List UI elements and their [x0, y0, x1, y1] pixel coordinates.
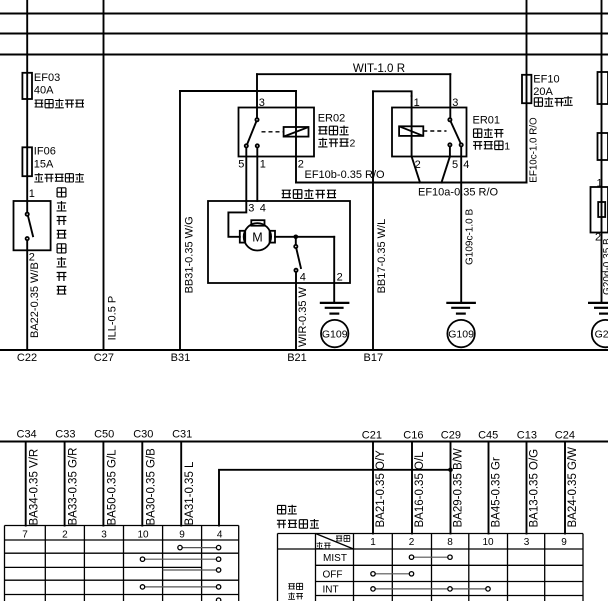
svg-text:40A: 40A — [34, 84, 54, 96]
wire ER02 pin3 riser — [256, 74, 258, 118]
wire BA50-0.35 G/L — [102, 442, 104, 526]
svg-text:3: 3 — [452, 97, 458, 109]
svg-text:C31: C31 — [172, 429, 192, 441]
park switch contacts — [295, 239, 297, 245]
svg-text:EF10c-1.0 R/O: EF10c-1.0 R/O — [529, 117, 540, 183]
svg-text:9: 9 — [179, 529, 185, 540]
wire BA21-0.35 O/Y — [372, 442, 374, 534]
wire EF03 feed (x=27) from top to ignition switch — [26, 0, 28, 212]
wire BA33-0.35 G/R — [64, 442, 66, 526]
label 雨刮组合开关 — [278, 505, 286, 513]
right table contact row OFF (1-2) — [373, 573, 412, 575]
wire WIT-1.0 R — [257, 73, 450, 75]
right edge circuit feed wire — [601, 0, 603, 302]
bus line 2 — [0, 33, 608, 35]
connector rail lower — [0, 441, 608, 443]
motor right wire to park switch — [275, 236, 334, 238]
ignition switch box 点火钥匙未拔开关 — [14, 201, 51, 250]
ER02 switch contacts — [255, 118, 258, 121]
right table contact row INT (1-8-10) — [373, 588, 488, 590]
svg-text:IF06: IF06 — [34, 145, 56, 157]
svg-text:9: 9 — [561, 537, 567, 548]
svg-text:2: 2 — [337, 271, 343, 283]
wire BA31-0.35 L — [180, 442, 182, 526]
right fuse 2 — [598, 133, 608, 160]
left table contact row 2 (10-4) — [143, 558, 219, 560]
svg-text:WIR-0.35 W: WIR-0.35 W — [297, 286, 309, 347]
left table contact row 4 partial (4) — [216, 598, 220, 601]
svg-text:5: 5 — [238, 158, 244, 170]
wire ILL-0.5 P (x=103.5) — [103, 0, 105, 350]
relay ER01 box — [392, 108, 467, 157]
svg-text:ER01: ER01 — [473, 115, 501, 127]
right table (wiper combination switch) outer and columns — [278, 534, 584, 601]
junction dot motor park switch — [294, 235, 299, 240]
ER01 coil line pin1-pin2 through box — [411, 96, 413, 157]
fuse IF06 — [22, 147, 32, 176]
svg-text:15A: 15A — [34, 158, 54, 170]
svg-text:C22: C22 — [17, 352, 37, 364]
wire ER02 pin5 to motor pin3 — [245, 148, 247, 201]
svg-text:1: 1 — [414, 97, 420, 109]
tap wire from BA29 to left table col 4 — [219, 470, 451, 526]
motor internal wire pin3 to left terminal — [228, 201, 246, 237]
svg-text:OFF: OFF — [323, 569, 343, 580]
relay ER02 box — [239, 108, 315, 157]
bus line 3 — [0, 54, 608, 56]
label 刮 fragment right fuse — [564, 96, 573, 105]
ground symbol for motor — [320, 302, 350, 304]
svg-text:BA29-0.35 B/W: BA29-0.35 B/W — [453, 448, 465, 527]
wire BA16-0.35 O/L — [411, 442, 413, 534]
svg-text:2: 2 — [409, 537, 415, 548]
label 仪表配电盒 — [35, 100, 44, 107]
wire BA45-0.35 Gr — [488, 442, 490, 534]
svg-text:8: 8 — [447, 537, 453, 548]
svg-text:B17: B17 — [364, 352, 384, 364]
svg-text:BA45-0.35 Gr: BA45-0.35 Gr — [491, 457, 503, 527]
label 多媒体系统 — [34, 173, 43, 182]
wire BA30-0.35 G/B — [141, 442, 143, 526]
svg-text:B21: B21 — [287, 352, 307, 364]
svg-text:BA50-0.35 G/L: BA50-0.35 G/L — [106, 449, 118, 526]
svg-text:G20: G20 — [595, 329, 608, 341]
svg-text:5: 5 — [452, 159, 458, 171]
right component box — [591, 187, 608, 233]
wire WIR-0.35 W — [295, 272, 297, 350]
wire BB17-0.35 W/L — [372, 91, 374, 350]
svg-text:1: 1 — [597, 178, 603, 190]
ER01 pin2 slant to EF10 wire — [412, 157, 420, 183]
wire BB31-0.35 W/G — [179, 91, 181, 350]
svg-text:1: 1 — [260, 158, 266, 170]
svg-text:C13: C13 — [517, 430, 537, 442]
svg-text:C34: C34 — [17, 429, 37, 441]
wire ER02 pin1 to motor pin4 — [256, 148, 258, 201]
ER02 dashed link — [262, 131, 284, 133]
right table contact row MIST (2-8) — [412, 556, 451, 558]
label 前雨刮电机 — [282, 190, 291, 197]
svg-text:4: 4 — [260, 202, 266, 214]
svg-text:2: 2 — [350, 138, 356, 150]
svg-text:EF10a-0.35 R/O: EF10a-0.35 R/O — [418, 187, 499, 199]
label 点火钥匙未拔开关 vertical — [57, 188, 66, 197]
wire BA22-0.35 W/B — [26, 241, 28, 350]
svg-text:C50: C50 — [94, 429, 114, 441]
svg-text:EF10b-0.35 R/O: EF10b-0.35 R/O — [305, 169, 386, 181]
wire BA24-0.35 G/W — [564, 442, 566, 534]
svg-text:C30: C30 — [133, 429, 153, 441]
svg-text:G109: G109 — [448, 329, 474, 341]
ground circle G109 right — [447, 320, 474, 347]
svg-text:10: 10 — [137, 529, 149, 540]
ground circle G109 motor — [321, 320, 348, 347]
svg-text:BA16-0.35 O/L: BA16-0.35 O/L — [414, 451, 426, 528]
left table (wiper motor connector) outer and columns — [5, 526, 239, 601]
ER02 coil line pin2 (passes through box) — [295, 91, 297, 183]
motor terminals — [251, 220, 264, 226]
svg-text:C45: C45 — [478, 430, 498, 442]
svg-text:G20d-0.35 B: G20d-0.35 B — [602, 238, 608, 295]
svg-text:3: 3 — [259, 97, 265, 109]
svg-text:G109: G109 — [322, 329, 348, 341]
left table contact row 1 (9-4) — [180, 547, 219, 549]
svg-text:2: 2 — [298, 158, 304, 170]
svg-text:BA24-0.35 G/W: BA24-0.35 G/W — [567, 447, 579, 528]
svg-text:7: 7 — [22, 529, 28, 540]
svg-text:BA33-0.35 G/R: BA33-0.35 G/R — [68, 448, 80, 526]
svg-text:EF03: EF03 — [34, 72, 60, 84]
svg-text:B31: B31 — [171, 352, 191, 364]
svg-text:2: 2 — [595, 231, 601, 243]
right table diagonal header cell 功能/序号 — [316, 534, 354, 550]
svg-text:3: 3 — [524, 537, 530, 548]
svg-text:C16: C16 — [403, 430, 423, 442]
front wiper motor box 前雨刮电机 — [208, 201, 350, 283]
fuse EF03 — [22, 73, 32, 99]
left table contact row 2b (4) — [163, 569, 219, 571]
svg-text:M: M — [252, 230, 262, 244]
ER02 coil — [284, 127, 309, 137]
svg-text:BB31-0.35 W/G: BB31-0.35 W/G — [183, 216, 195, 293]
junction dot on BA29 wire — [448, 468, 453, 473]
svg-text:1: 1 — [370, 537, 376, 548]
ground symbol for ER01 pin4 — [446, 302, 476, 304]
bus line 1 (top supply rail) — [0, 13, 608, 15]
svg-text:BB17-0.35 W/L: BB17-0.35 W/L — [376, 219, 388, 294]
ER01 dashed link — [423, 130, 446, 132]
wire ER01 pin4 to ground G109 — [460, 147, 462, 302]
motor M circle — [244, 223, 271, 250]
svg-text:1: 1 — [504, 140, 510, 152]
svg-text:BA22-0.35 W/B: BA22-0.35 W/B — [29, 262, 41, 338]
svg-text:G109c-1.0 B: G109c-1.0 B — [465, 209, 476, 265]
wire BB31 horizontal jog y=91 — [180, 90, 296, 92]
svg-text:BA34-0.35 V/R: BA34-0.35 V/R — [29, 449, 41, 526]
ground symbol right — [588, 302, 608, 304]
svg-text:C29: C29 — [441, 430, 461, 442]
svg-text:ER02: ER02 — [318, 113, 346, 125]
svg-text:BA21-0.35 O/Y: BA21-0.35 O/Y — [375, 450, 387, 528]
svg-text:MIST: MIST — [323, 553, 347, 564]
svg-text:3: 3 — [248, 202, 254, 214]
fuse EF10 — [522, 75, 531, 103]
wire BA29-0.35 B/W — [450, 442, 452, 534]
wire EF10b/EF10a horizontal — [296, 182, 527, 184]
right fuse 1 — [598, 72, 608, 104]
svg-text:BA13-0.35 O/G: BA13-0.35 O/G — [529, 449, 541, 528]
ER01 pin1 jog from BB17 — [373, 91, 412, 96]
right box resistor — [598, 202, 605, 217]
svg-text:10: 10 — [482, 537, 494, 548]
svg-text:4: 4 — [463, 159, 469, 171]
svg-text:C33: C33 — [55, 429, 75, 441]
ground circle G20 — [592, 320, 608, 347]
svg-text:C24: C24 — [555, 430, 575, 442]
svg-text:2: 2 — [29, 252, 35, 264]
ER01 pin5 slant to EF10 wire — [449, 147, 451, 157]
svg-text:20A: 20A — [533, 86, 553, 98]
svg-text:INT: INT — [322, 584, 338, 595]
label 雨刮电机 in left column of right table — [288, 584, 295, 589]
svg-text:C21: C21 — [362, 430, 382, 442]
label 前雨刮 under EF10 — [534, 98, 542, 106]
svg-text:ILL-0.5 P: ILL-0.5 P — [107, 296, 119, 341]
svg-text:EF10: EF10 — [533, 74, 559, 86]
ignition switch contacts — [26, 213, 29, 216]
connector rail upper — [0, 349, 608, 351]
ER01 coil — [399, 126, 423, 136]
left table contact row 3 (10-4) — [143, 586, 219, 588]
motor pin 2 wire to ground — [333, 237, 335, 302]
svg-text:BA30-0.35 G/B: BA30-0.35 G/B — [145, 448, 157, 526]
wire EF10 feed (x=526.5) — [526, 0, 528, 183]
svg-text:4: 4 — [300, 271, 306, 283]
svg-text:C27: C27 — [94, 352, 114, 364]
ER01 pin3 riser from WIT — [449, 74, 451, 118]
svg-text:WIT-1.0 R: WIT-1.0 R — [353, 62, 405, 75]
svg-text:3: 3 — [101, 529, 107, 540]
wire BA34-0.35 V/R — [25, 442, 27, 526]
svg-text:4: 4 — [217, 529, 223, 540]
ER01 switch contacts — [448, 118, 451, 121]
svg-text:BA31-0.35 L: BA31-0.35 L — [184, 461, 196, 526]
svg-text:1: 1 — [29, 188, 35, 200]
svg-text:2: 2 — [62, 529, 68, 540]
wire BA13-0.35 O/G — [526, 442, 528, 534]
